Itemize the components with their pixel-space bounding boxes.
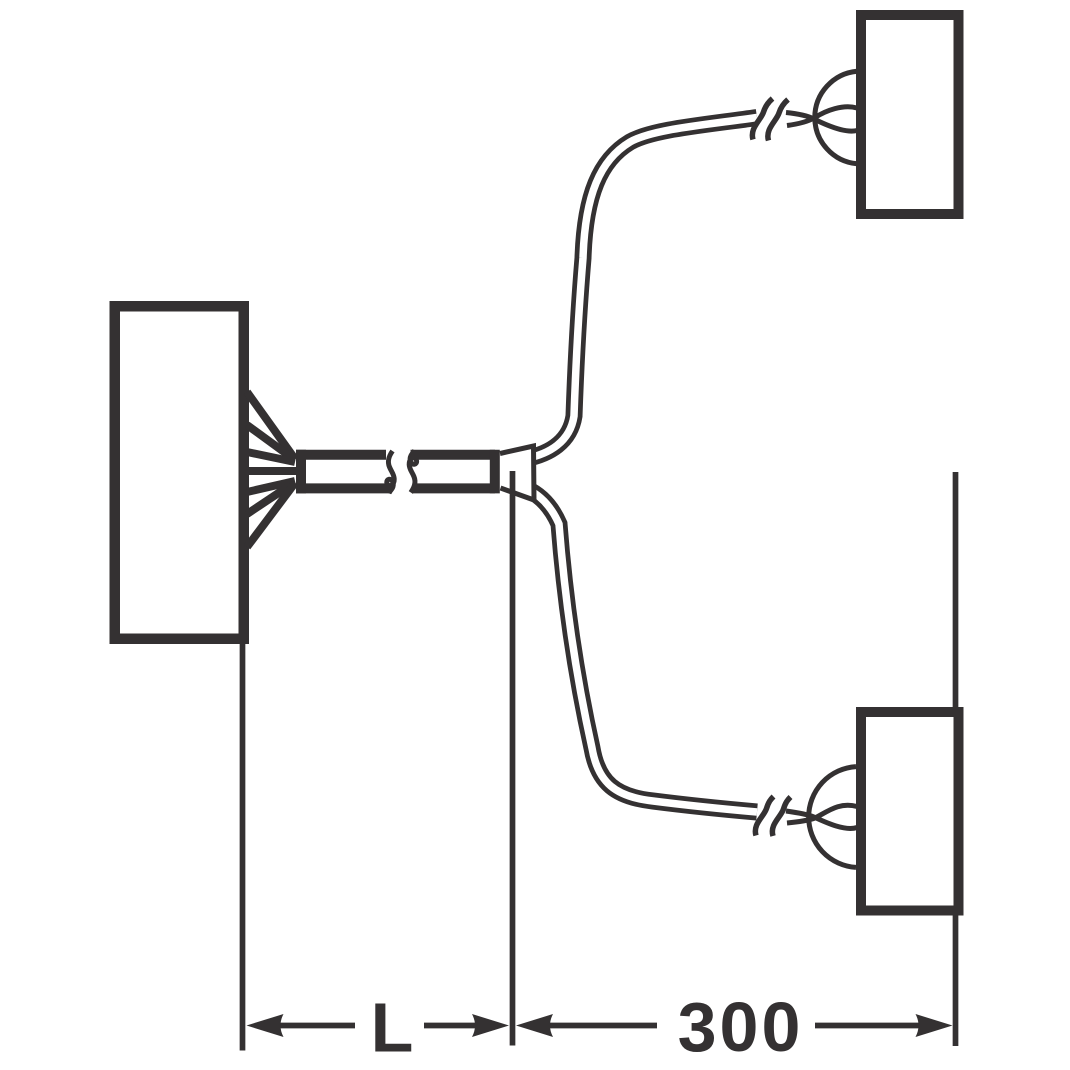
fan-out wire 6 — [247, 482, 295, 514]
wire lower-branch cable (dark outer) — [527, 489, 757, 812]
fan-out wire 7 — [247, 483, 295, 547]
lower branch knot line A (upper wire to lower lens) — [786, 811, 857, 828]
dimension L: left arrowhead — [247, 1014, 284, 1037]
extension line below left block — [240, 644, 246, 1051]
upper branch big arc — [815, 71, 857, 164]
dimension L: left shaft — [280, 1023, 355, 1029]
upper branch break slash 2 — [768, 100, 788, 141]
dimension 300: right arrowhead — [916, 1014, 953, 1037]
dimension 300: right shaft — [815, 1023, 919, 1029]
upper branch break slash 1 — [752, 99, 772, 140]
dimension L: right arrowhead — [472, 1014, 509, 1037]
svg-text:L: L — [371, 989, 414, 1067]
cable tube right end cap — [490, 450, 500, 494]
lower branch break slash 2 — [772, 797, 790, 836]
extension line from wedge — [510, 471, 516, 1046]
fan-out wire 5 — [247, 481, 295, 492]
lower branch big arc — [809, 767, 856, 868]
lower branch knot line B (lower wire to upper lens) — [787, 805, 857, 823]
cable tube left segment bottom line — [296, 483, 392, 493]
connector wedge at cable end — [500, 446, 534, 500]
cable tube right segment top line — [411, 450, 496, 460]
dimension L: right shaft — [424, 1023, 475, 1029]
dimension 300: left arrowhead — [516, 1014, 553, 1037]
upper branch knot line A (upper wire to lower lens) — [786, 113, 857, 132]
lower branch break slash 1 — [755, 797, 773, 836]
tube break squiggle left — [387, 451, 394, 493]
upper branch knot line B (lower wire to upper lens) — [787, 107, 857, 126]
wire lower-branch cable (white core) — [527, 489, 757, 812]
fan-out wire 2 — [247, 425, 295, 460]
cable tube left end cap — [296, 450, 306, 494]
tube break squiggle right — [409, 450, 416, 492]
fan-out wire 4 (center) — [247, 467, 300, 475]
wire upper-branch cable (white core) — [526, 118, 757, 459]
fan-out wire 3 — [247, 452, 295, 462]
top-right connector block rectangle — [861, 15, 959, 214]
left connector block rectangle — [115, 306, 244, 639]
dimension 300: left shaft — [550, 1023, 657, 1029]
extension line at right boxes — [953, 472, 959, 1046]
cable tube left segment top line — [296, 450, 386, 460]
svg-text:300: 300 — [678, 988, 804, 1066]
wire upper-branch cable (dark outer) — [526, 118, 757, 459]
bottom-right connector block rectangle — [861, 712, 959, 911]
fan-out wire 1 — [247, 392, 295, 459]
cable tube right segment bottom line — [413, 483, 495, 493]
